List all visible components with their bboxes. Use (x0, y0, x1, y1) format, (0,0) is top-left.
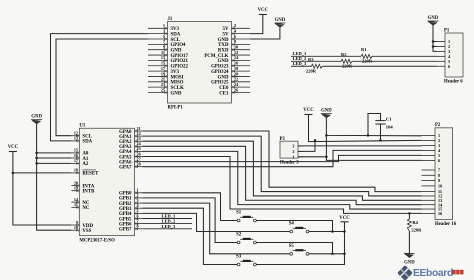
svg-text:18: 18 (74, 168, 78, 173)
net label LED_2 at U1 (143, 219, 193, 224)
svg-text:20: 20 (234, 71, 238, 76)
power symbol VCC left (8, 145, 19, 151)
svg-text:Header 6: Header 6 (444, 79, 463, 84)
ground symbol at J1 (274, 18, 285, 27)
svg-text:220R: 220R (411, 228, 422, 233)
wire R1 to P1 pin4 (372, 55, 437, 57)
svg-text:11: 11 (161, 50, 165, 55)
junction S1-S4 (331, 230, 334, 233)
svg-text:RXD: RXD (218, 49, 229, 54)
junction GND rail (325, 134, 328, 137)
wire R3 to P1 pin6 (322, 65, 437, 67)
wire VCC to U1 VDD pin9 (13, 152, 72, 226)
wire GPB2 to S5 (143, 203, 290, 254)
svg-text:GPIO17: GPIO17 (171, 54, 189, 59)
junction VCC-S4 row (343, 230, 346, 233)
wire S4 right to VCC rail (309, 231, 345, 233)
wire R2 to P1 pin5 (352, 60, 437, 62)
svg-text:7: 7 (163, 39, 165, 44)
wire SDA from J1 pin3 to U1 pin13 (51, 34, 149, 141)
svg-text:C1: C1 (386, 117, 392, 122)
wire GPB3 to S3 (143, 208, 238, 264)
svg-text:GPIO4: GPIO4 (171, 43, 186, 48)
wire GPB4 to S4 (143, 213, 290, 231)
wire P3 pin3 to P2 pin3 (298, 145, 422, 147)
svg-text:MOSI: MOSI (171, 75, 184, 80)
svg-text:VSS: VSS (82, 229, 91, 234)
svg-text:13: 13 (161, 55, 165, 60)
ground symbol at P1 (428, 16, 439, 25)
svg-text:5V: 5V (223, 27, 229, 32)
junction GND-A1 (35, 157, 38, 160)
wire S2 right to S5 row (256, 243, 332, 254)
svg-text:12: 12 (234, 50, 238, 55)
svg-text:28: 28 (137, 162, 141, 167)
wire GPA5 to P2 pin16 (143, 157, 422, 214)
svg-text:GPIO22: GPIO22 (171, 65, 189, 70)
svg-text:GND: GND (404, 260, 415, 265)
svg-text:VCC: VCC (303, 108, 314, 113)
connector P2 Header 16 (422, 123, 457, 227)
wire GND to U1 VSS pin10 (37, 124, 72, 230)
svg-text:GND: GND (321, 109, 332, 114)
svg-text:9: 9 (438, 178, 440, 183)
wire GND to P1 pin3 (433, 26, 437, 52)
svg-text:220R: 220R (362, 58, 373, 63)
ground symbol mid (321, 109, 332, 119)
svg-text:104: 104 (386, 125, 394, 130)
svg-text:VCC: VCC (339, 216, 350, 221)
svg-text:A2: A2 (82, 162, 89, 167)
resistor R3 220R (306, 57, 322, 73)
resistor R4 220R (407, 219, 422, 233)
wire GPA0 to P2 pin11 (143, 131, 422, 192)
net label LED_2 near R2 (291, 56, 341, 61)
junction S2-S5 (331, 253, 334, 256)
svg-text:11: 11 (74, 202, 78, 207)
wire GND branch to U1 A2 (37, 162, 72, 164)
svg-text:5V: 5V (223, 32, 229, 37)
svg-text:26: 26 (234, 87, 238, 92)
svg-text:S4: S4 (289, 222, 295, 227)
wire GND to P1 pin1 (433, 41, 437, 43)
net label LED_1 at U1 (143, 214, 193, 219)
wire GND down to P2 pin6 (326, 135, 421, 160)
ground symbol left (31, 114, 42, 124)
wire J1 pin4 5V to VCC (250, 15, 263, 34)
switch S1 (236, 211, 256, 222)
svg-text:GPIO25: GPIO25 (211, 81, 229, 86)
svg-text:SDA: SDA (171, 32, 181, 37)
svg-text:Header 16: Header 16 (435, 222, 457, 227)
svg-text:S5: S5 (289, 244, 295, 249)
svg-text:U1: U1 (79, 124, 85, 129)
svg-text:P2: P2 (435, 123, 441, 128)
junction GND-A2 (35, 162, 38, 165)
svg-text:EEboard: EEboard (413, 268, 453, 279)
svg-text:P3: P3 (280, 137, 286, 142)
power symbol VCC at J1 (258, 8, 269, 14)
svg-text:10: 10 (234, 45, 238, 50)
net label LED_1 near R1 (291, 51, 361, 56)
svg-text:GND: GND (218, 75, 229, 80)
wire SCL from J1 pin5 to U1 pin12 (56, 39, 148, 136)
switch S4 (289, 222, 309, 233)
svg-text:17: 17 (161, 66, 165, 71)
wire GPA6 to P2 pin5 (143, 155, 422, 161)
wire J1 pin6 GND (250, 28, 280, 40)
svg-text:CE1: CE1 (219, 91, 229, 96)
svg-text:GND: GND (275, 18, 286, 23)
connector P1 Header 6 (437, 28, 463, 84)
svg-text:15: 15 (161, 61, 165, 66)
wire GPB1 to S2 (143, 198, 238, 243)
svg-text:GPA7: GPA7 (119, 166, 132, 171)
svg-text:R2: R2 (341, 52, 347, 57)
svg-text:22: 22 (234, 77, 238, 82)
wire VCC branch to U1 RESET pin18 (13, 172, 72, 174)
svg-text:8: 8 (234, 39, 236, 44)
svg-text:RPI-P1: RPI-P1 (168, 105, 184, 110)
junction GND-A0 (35, 152, 38, 155)
junction C1 bottom (379, 139, 382, 142)
junction GND-P1.1 (432, 40, 435, 43)
wire S3 right to VCC rail (256, 222, 344, 265)
svg-text:GND: GND (428, 16, 439, 21)
svg-text:3V3: 3V3 (171, 27, 180, 32)
junction VCC-RESET (12, 172, 15, 175)
junction R4 on pin16 row (408, 212, 411, 215)
svg-text:P1: P1 (444, 28, 450, 33)
switch S5 (289, 244, 309, 255)
wire GND branch to U1 A0 (37, 152, 72, 154)
wire R4 to GND (408, 231, 410, 253)
svg-text:VCC: VCC (8, 145, 19, 150)
svg-text:SCL: SCL (171, 38, 181, 43)
svg-text:S1: S1 (236, 211, 242, 216)
svg-text:RESET: RESET (82, 172, 99, 177)
svg-text:3: 3 (292, 144, 294, 149)
wire GND to P1 pin2 (433, 45, 437, 47)
svg-text:A1: A1 (82, 157, 89, 162)
IC U1 MCP23017-E/SO (71, 124, 142, 244)
wire GPB0 to S1 (143, 193, 238, 221)
wire S5 right to VCC rail (309, 253, 345, 255)
svg-text:16: 16 (234, 61, 238, 66)
svg-text:6: 6 (448, 64, 450, 69)
svg-text:GND: GND (171, 49, 182, 54)
junction GND-P3.1 (325, 156, 328, 159)
svg-text:3V3: 3V3 (171, 70, 180, 75)
svg-text:GND: GND (218, 38, 229, 43)
svg-text:16: 16 (438, 211, 442, 216)
svg-text:1: 1 (163, 23, 165, 28)
svg-text:2: 2 (292, 149, 294, 154)
svg-text:TXD: TXD (218, 43, 229, 48)
svg-text:MISO: MISO (171, 81, 184, 86)
svg-text:25: 25 (161, 87, 165, 92)
svg-text:2: 2 (234, 23, 236, 28)
svg-text:S3: S3 (236, 255, 242, 260)
wire GPA1 to P2 pin12 (143, 136, 422, 196)
junction GND-P1.2 (432, 45, 435, 48)
svg-text:10: 10 (438, 184, 442, 189)
svg-text:220R: 220R (306, 68, 317, 73)
wire S1 right to S4 row (256, 221, 332, 232)
EEboard logo (397, 265, 463, 280)
junction C1 top (367, 134, 370, 137)
svg-text:6: 6 (234, 34, 236, 39)
svg-text:16: 16 (74, 153, 78, 158)
svg-text:8: 8 (438, 173, 440, 178)
svg-text:GPIO24: GPIO24 (211, 70, 229, 75)
svg-text:GND: GND (171, 91, 182, 96)
junction VCC-P3.2 (314, 139, 317, 142)
svg-text:9: 9 (163, 45, 165, 50)
net label LED_3 near R3 (291, 61, 311, 66)
svg-text:GND: GND (31, 114, 42, 119)
svg-text:SCLK: SCLK (171, 86, 185, 91)
svg-text:INTB: INTB (82, 190, 95, 195)
svg-text:18: 18 (234, 66, 238, 71)
svg-text:1: 1 (292, 154, 294, 159)
resistor R1 220R (361, 47, 373, 63)
ground symbol at R4 (404, 253, 415, 265)
power symbol VCC switches (339, 216, 350, 222)
svg-text:LED_3: LED_3 (162, 224, 177, 229)
svg-text:SDA: SDA (82, 140, 92, 145)
svg-text:GPIO23: GPIO23 (211, 65, 229, 70)
svg-text:23: 23 (161, 82, 165, 87)
wire VCC rail to P2 pin2 (309, 115, 422, 142)
svg-text:5: 5 (163, 34, 165, 39)
wire branch GND to P3 pin1 (298, 156, 326, 158)
svg-text:17: 17 (74, 158, 78, 163)
svg-text:NC: NC (82, 206, 90, 211)
svg-text:MCP23017-E/SO: MCP23017-E/SO (79, 238, 115, 243)
svg-text:R3: R3 (308, 57, 314, 62)
svg-text:19: 19 (74, 186, 78, 191)
svg-text:19: 19 (161, 71, 165, 76)
svg-text:LED_3: LED_3 (293, 61, 308, 66)
svg-text:21: 21 (161, 77, 165, 82)
svg-text:J1: J1 (168, 17, 173, 22)
switch S2 (236, 233, 256, 244)
wire branch VCC to P3 pin2 (298, 140, 315, 151)
wire GPA7 to P2 pin4 (143, 150, 422, 166)
switch S3 (236, 255, 256, 266)
svg-text:8: 8 (137, 224, 139, 229)
wire GPA2 to P2 pin13 (143, 141, 422, 200)
svg-text:CE0: CE0 (219, 86, 229, 91)
junction VCC-S5 row (343, 253, 346, 256)
power symbol VCC mid (303, 108, 314, 114)
wire GND rail to P2 pin1 (326, 118, 421, 136)
svg-text:13: 13 (74, 136, 78, 141)
connector J1 RPI-P1 (148, 17, 250, 111)
svg-text:GPB7: GPB7 (119, 228, 132, 233)
svg-text:3: 3 (163, 28, 165, 33)
svg-text:PCM_CLK: PCM_CLK (204, 54, 228, 59)
svg-text:S2: S2 (236, 233, 242, 238)
connector P3 Header 3 (280, 137, 304, 166)
net label LED_3 at U1 (143, 224, 193, 229)
wire P2 pin16 to R4 (408, 213, 410, 219)
svg-text:GPIO21: GPIO21 (171, 59, 189, 64)
wire GPA3 to P2 pin14 (143, 146, 422, 204)
resistor R2 220R (341, 52, 353, 68)
svg-text:GND: GND (218, 59, 229, 64)
svg-text:10: 10 (74, 225, 78, 230)
svg-text:R1: R1 (361, 47, 367, 52)
wire GND branch to U1 A1 (37, 157, 72, 159)
wire GPA4 to P2 pin15 (143, 151, 422, 209)
svg-text:VCC: VCC (258, 8, 269, 13)
svg-text:R4: R4 (412, 220, 418, 225)
svg-text:7: 7 (438, 168, 440, 173)
capacitor C1 104 (368, 114, 393, 141)
svg-text:6: 6 (438, 158, 440, 163)
